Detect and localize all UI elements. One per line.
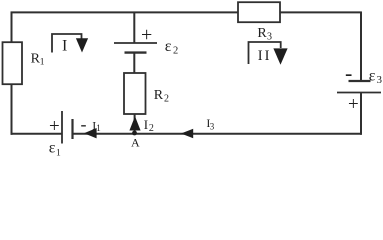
loop current I indicator [52, 34, 88, 54]
svg-text:3: 3 [267, 31, 272, 42]
wire left upper [11, 12, 13, 44]
svg-text:A: A [131, 136, 140, 150]
svg-text:1: 1 [56, 149, 61, 159]
wire top [11, 11, 362, 13]
wire bottom main segment [73, 133, 362, 135]
wire bottom left segment [11, 133, 62, 135]
svg-text:3: 3 [210, 122, 215, 132]
wire R2 to node A [134, 114, 136, 134]
svg-text:2: 2 [149, 123, 154, 134]
loop current II indicator [249, 42, 288, 65]
svg-text:I: I [265, 48, 270, 64]
svg-text:+: + [348, 94, 359, 115]
svg-text:1: 1 [96, 123, 101, 133]
svg-text:R: R [257, 26, 267, 41]
svg-text:-: - [345, 61, 352, 86]
svg-text:+: + [141, 24, 152, 46]
svg-text:2: 2 [173, 46, 178, 57]
svg-text:+: + [49, 116, 60, 137]
svg-text:I: I [258, 48, 263, 64]
wire right lower [360, 93, 362, 135]
svg-text:3: 3 [377, 74, 383, 86]
current arrow I2 [129, 116, 154, 134]
wire left lower [11, 84, 13, 135]
wire epsilon2 top lead [133, 12, 135, 43]
svg-text:I: I [62, 37, 67, 54]
svg-text:ε: ε [165, 38, 172, 55]
svg-text:ε: ε [49, 139, 56, 156]
svg-text:ε: ε [369, 68, 376, 85]
current arrow I1 [84, 118, 101, 138]
svg-text:-: - [81, 114, 87, 134]
battery E1 [49, 111, 87, 159]
wire epsilon2 to R2 [133, 53, 135, 74]
svg-text:2: 2 [164, 94, 169, 105]
battery E2 [114, 24, 178, 57]
wire right upper [360, 12, 362, 82]
svg-text:R: R [154, 88, 164, 103]
current arrow I3 [181, 116, 215, 138]
resistor R2 [124, 73, 169, 114]
svg-text:1: 1 [40, 57, 45, 67]
battery E3 [337, 61, 383, 116]
resistor R1 [3, 42, 45, 84]
node A [131, 131, 140, 150]
resistor R3 [238, 2, 280, 42]
svg-text:I: I [144, 117, 148, 132]
